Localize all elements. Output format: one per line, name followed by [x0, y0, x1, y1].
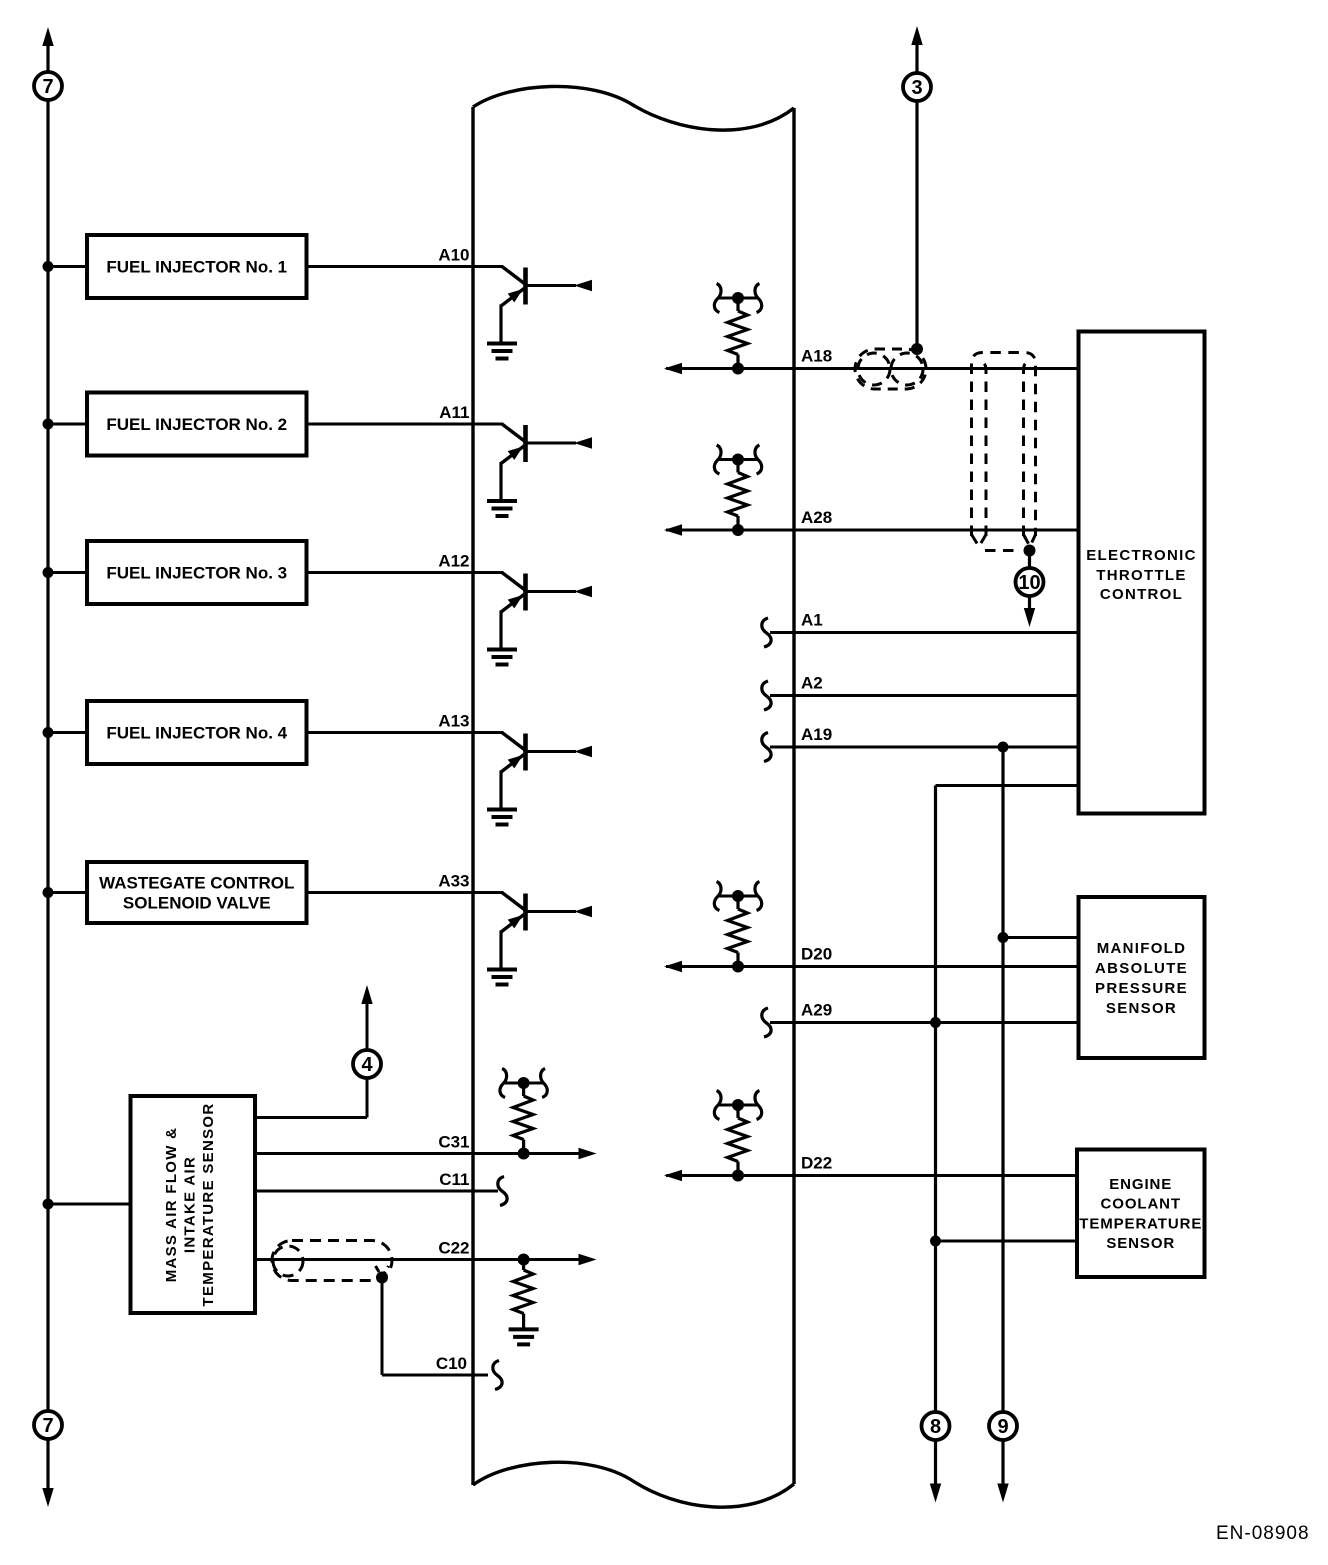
node 10 [1016, 568, 1044, 596]
svg-text:C22: C22 [438, 1239, 469, 1258]
resistor pull-up at A28 [714, 445, 761, 536]
svg-text:A33: A33 [438, 872, 469, 891]
wire node 3 to A18 [911, 26, 922, 45]
junction on bus [43, 419, 54, 430]
svg-text:A29: A29 [801, 1001, 832, 1020]
wire bus to fuel injector No.3 [48, 571, 308, 574]
svg-text:WASTEGATE CONTROL: WASTEGATE CONTROL [99, 874, 294, 893]
node 7 (top) [34, 72, 62, 100]
node 9 [989, 1412, 1017, 1440]
svg-text:A18: A18 [801, 347, 832, 366]
wire fuel injector No.1 to ECM pin A10 [306, 265, 474, 268]
svg-text:4: 4 [361, 1054, 373, 1076]
ground [509, 1327, 539, 1331]
svg-text:SENSOR: SENSOR [1106, 1235, 1175, 1252]
svg-text:MANIFOLD: MANIFOLD [1097, 940, 1187, 957]
fuel injector No.1 box [87, 235, 307, 298]
resistor pull-down at C22 [509, 1254, 539, 1345]
wire bus to fuel injector No.2 [48, 423, 308, 426]
ground [487, 968, 517, 972]
wire-break mark at C11 [498, 1177, 507, 1206]
ground [487, 499, 517, 503]
wire wastegate to ECM pin A33 [306, 891, 474, 894]
wire MAF to ECM pin C11 [257, 1190, 498, 1193]
junction ECT/ground rail [930, 1236, 941, 1247]
node 7 power bus (left vertical) [42, 27, 53, 1507]
svg-text:SENSOR: SENSOR [1106, 1000, 1177, 1017]
ECM left edge [471, 107, 474, 1485]
wire-break mark at C10 [493, 1361, 502, 1390]
resistor pull-up at A18 [714, 284, 761, 375]
ground [487, 808, 517, 812]
wire ECM pin D22 to engine coolant temperature sensor [666, 1174, 1077, 1177]
ECM torn top edge [473, 86, 794, 130]
ground [487, 648, 517, 652]
junction on bus [43, 261, 54, 272]
svg-text:TEMPERATURE: TEMPERATURE [1079, 1215, 1202, 1232]
wire fuel injector No.4 to ECM pin A13 [306, 731, 474, 734]
svg-text:A1: A1 [801, 611, 823, 630]
svg-text:A13: A13 [438, 712, 469, 731]
junction on bus [43, 727, 54, 738]
svg-text:A28: A28 [801, 508, 832, 527]
svg-text:D20: D20 [801, 945, 832, 964]
wire MAF to ECM pin C22 [257, 1258, 580, 1261]
fuel injector No.3 box [87, 541, 307, 604]
junction on A19 [998, 742, 1009, 753]
wire ECM pin A28 to electronic throttle control [666, 529, 1078, 532]
node 4 [353, 1050, 381, 1078]
svg-text:INTAKE AIR: INTAKE AIR [182, 1156, 199, 1253]
svg-text:A12: A12 [438, 552, 469, 571]
driver transistor Q5 (wastegate) [471, 893, 592, 985]
svg-text:FUEL INJECTOR No. 4: FUEL INJECTOR No. 4 [106, 724, 287, 743]
svg-text:C31: C31 [438, 1133, 469, 1152]
svg-text:9: 9 [997, 1416, 1008, 1438]
wire bus to fuel injector No.1 [48, 265, 308, 268]
svg-text:ENGINE: ENGINE [1109, 1176, 1172, 1193]
svg-text:A11: A11 [439, 403, 469, 422]
twisted pair marker on A18 [855, 349, 926, 389]
node 8 [922, 1412, 950, 1440]
svg-text:FUEL INJECTOR No. 2: FUEL INJECTOR No. 2 [106, 415, 287, 434]
svg-text:C11: C11 [439, 1170, 469, 1189]
wire MAF to ECM pin C31 (signal out) [257, 1152, 580, 1155]
svg-text:THROTTLE: THROTTLE [1096, 567, 1186, 584]
junction on bus [43, 567, 54, 578]
wire ECM pin A1 to electronic throttle control [770, 631, 1078, 634]
shield drain to node 10 [1024, 545, 1036, 557]
shield (dashed) around A18/A28 pair [972, 353, 1036, 551]
driver transistor Q2 (injector 2) [471, 424, 592, 516]
ECM right edge [792, 108, 795, 1484]
svg-text:C10: C10 [436, 1354, 467, 1373]
manifold absolute pressure sensor box [1079, 897, 1205, 1058]
svg-text:8: 8 [930, 1416, 941, 1438]
junction on bus [43, 1199, 54, 1210]
shield oval on C22 wire [272, 1241, 392, 1281]
wire fuel injector No.2 to ECM pin A11 [306, 423, 474, 426]
vertical wire to node 8 [934, 786, 937, 1486]
svg-text:A19: A19 [801, 725, 832, 744]
ground [487, 342, 517, 346]
svg-text:EN-08908: EN-08908 [1216, 1523, 1310, 1544]
svg-text:MASS AIR FLOW &: MASS AIR FLOW & [163, 1127, 180, 1283]
svg-text:COOLANT: COOLANT [1101, 1196, 1181, 1213]
wire bus to fuel injector No.4 [48, 731, 308, 734]
svg-text:7: 7 [42, 76, 53, 98]
svg-text:7: 7 [42, 1415, 53, 1437]
svg-text:10: 10 [1018, 572, 1040, 594]
svg-text:3: 3 [911, 77, 922, 99]
svg-text:A10: A10 [438, 246, 469, 265]
wire C22 shield to ECM pin C10 [381, 1278, 384, 1376]
svg-text:TEMPERATURE SENSOR: TEMPERATURE SENSOR [200, 1103, 217, 1307]
driver transistor Q4 (injector 4) [471, 733, 592, 825]
fuel injector No.2 box [87, 393, 307, 456]
svg-text:FUEL INJECTOR No. 1: FUEL INJECTOR No. 1 [106, 257, 287, 276]
mass air flow & intake air temperature sensor box [131, 1096, 256, 1313]
svg-text:ELECTRONIC: ELECTRONIC [1086, 547, 1197, 564]
junction on bus [43, 887, 54, 898]
node 7 (bottom) [34, 1411, 62, 1439]
svg-text:PRESSURE: PRESSURE [1095, 980, 1188, 997]
svg-text:ABSOLUTE: ABSOLUTE [1095, 960, 1188, 977]
wire electronic throttle control to sensors (5V ref) [936, 784, 1079, 787]
wire ECM pin A19 to electronic throttle control [770, 746, 1078, 749]
wire ECM pin A2 to electronic throttle control [770, 694, 1078, 697]
ECM torn bottom edge [473, 1462, 794, 1507]
engine coolant temperature sensor box [1077, 1150, 1205, 1278]
resistor pull-up at D22 [714, 1091, 761, 1182]
wire bus to wastegate solenoid [48, 891, 308, 894]
wire MAF sensor to node 4 [257, 1116, 367, 1119]
junction A29/ground rail [930, 1017, 941, 1028]
vertical wire A19 to node 9 [1001, 747, 1004, 1485]
junction supply/MAP [998, 932, 1009, 943]
svg-text:FUEL INJECTOR No. 3: FUEL INJECTOR No. 3 [106, 564, 287, 583]
svg-text:SOLENOID VALVE: SOLENOID VALVE [123, 894, 271, 913]
svg-text:CONTROL: CONTROL [1100, 586, 1183, 603]
driver transistor Q1 (injector 1) [471, 267, 592, 359]
node 3 [903, 73, 931, 101]
wire ECM pin A18 to electronic throttle control [666, 367, 1078, 370]
wire ECM pin D20 to MAP sensor [666, 965, 1078, 968]
fuel injector No.4 box [87, 701, 307, 764]
wire-break mark at A2 [762, 681, 771, 710]
svg-text:A2: A2 [801, 674, 823, 693]
driver transistor Q3 (injector 3) [471, 573, 592, 665]
wastegate control solenoid valve box [87, 862, 307, 923]
wire-break mark at A1 [762, 618, 771, 647]
resistor pull-up at D20 [714, 882, 761, 973]
resistor pull-up at C31 [500, 1069, 547, 1160]
junction node3/shielded pair [911, 343, 923, 355]
wire bus to MAF sensor [48, 1203, 130, 1206]
svg-text:D22: D22 [801, 1154, 832, 1173]
shield drain junction on C22 [376, 1266, 389, 1277]
wire ECT sensor return [936, 1240, 1078, 1243]
wire fuel injector No.3 to ECM pin A12 [306, 571, 474, 574]
wire MAP sensor supply [1003, 936, 1078, 939]
wire-break mark at A19 [762, 733, 771, 762]
wire ECM pin A29 to MAP sensor [770, 1021, 1078, 1024]
electronic throttle control box [1079, 332, 1205, 814]
